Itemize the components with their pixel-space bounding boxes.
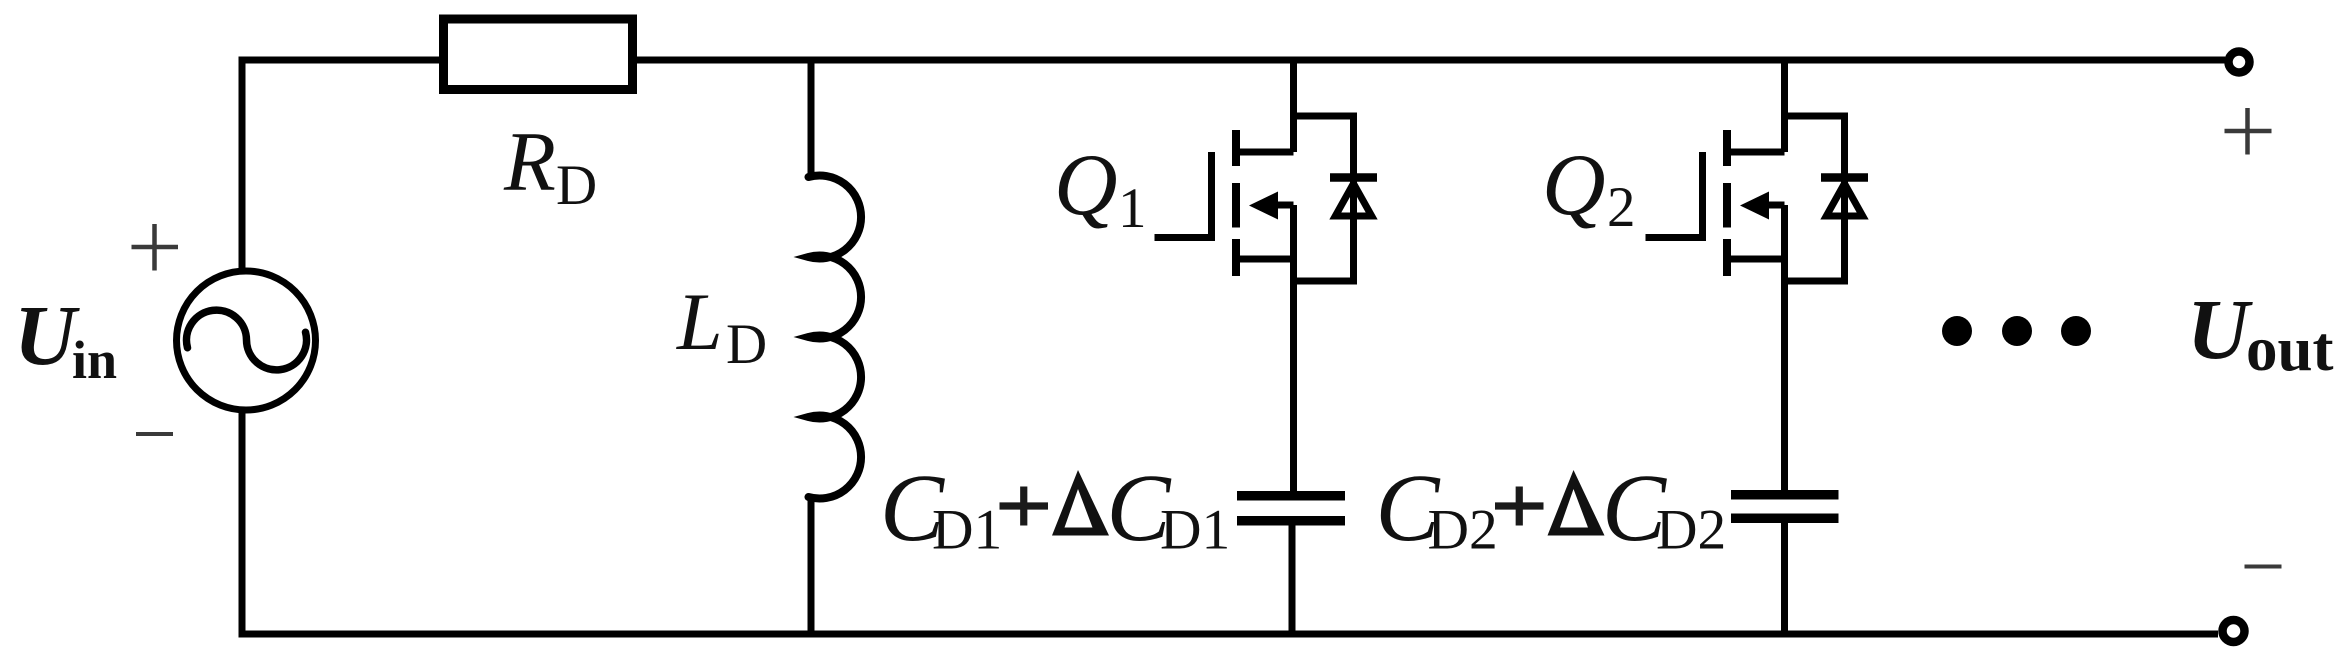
label U_in plus sign bbox=[132, 224, 179, 271]
wire inductor top bbox=[808, 60, 815, 177]
svg-text:in: in bbox=[72, 330, 117, 390]
svg-text:D: D bbox=[726, 313, 767, 376]
body diode of Q1 cathode bar bbox=[1330, 173, 1377, 182]
label C_D2+deltaC_D2 bbox=[1376, 454, 1727, 562]
svg-text:D2: D2 bbox=[1656, 499, 1726, 562]
inductor L_D coil bbox=[809, 176, 862, 499]
Q2 gate lead bbox=[1646, 152, 1703, 238]
svg-text:L: L bbox=[676, 276, 723, 367]
svg-text:out: out bbox=[2246, 314, 2334, 384]
Q1 gate lead bbox=[1155, 152, 1212, 238]
body diode of Q2 vertical lead bbox=[1841, 113, 1848, 285]
Q2 source lead bbox=[1728, 256, 1785, 263]
svg-text:Q: Q bbox=[1054, 137, 1118, 234]
output terminal top bbox=[2229, 52, 2250, 73]
body diode of Q1 vertical lead bbox=[1350, 113, 1357, 285]
ellipsis dot 2 bbox=[2002, 316, 2032, 346]
capacitor C_D1 top plate bbox=[1237, 491, 1345, 501]
body diode of Q1 triangle bbox=[1335, 184, 1371, 217]
Q1 drain lead bbox=[1237, 149, 1294, 156]
Q2 drain lead bbox=[1728, 149, 1785, 156]
Q1 source down vertical bbox=[1290, 281, 1297, 492]
svg-text:1: 1 bbox=[1118, 177, 1147, 240]
svg-text:D1: D1 bbox=[1160, 499, 1230, 562]
wire inductor bottom bbox=[808, 497, 815, 634]
svg-text:D1: D1 bbox=[932, 499, 1002, 562]
body diode of Q2 triangle bbox=[1826, 184, 1862, 217]
wire input vertical lower bbox=[239, 410, 246, 638]
wire capacitor C_D2 bottom bbox=[1781, 522, 1788, 634]
AC source sine wave bbox=[187, 310, 307, 370]
svg-text:D2: D2 bbox=[1428, 499, 1498, 562]
capacitor C_D2 bottom plate bbox=[1731, 514, 1839, 524]
Q2 body arrow head bbox=[1740, 192, 1769, 220]
transistor Q2 bbox=[1646, 57, 1869, 493]
Q2 source down vertical bbox=[1781, 281, 1788, 492]
Q1 body-source vertical bbox=[1290, 205, 1297, 281]
svg-text:U: U bbox=[14, 287, 80, 383]
svg-text:U: U bbox=[2187, 281, 2253, 377]
svg-text:2: 2 bbox=[1607, 176, 1636, 239]
capacitor C_D1 bottom plate bbox=[1237, 516, 1345, 526]
Q1 body arrow head bbox=[1249, 192, 1278, 220]
output terminal bottom bbox=[2223, 620, 2245, 642]
wire top rail bbox=[242, 57, 2225, 64]
svg-text:Q: Q bbox=[1542, 137, 1606, 234]
svg-text:D: D bbox=[556, 154, 597, 217]
body diode of Q2 cathode bar bbox=[1821, 173, 1868, 182]
Q1 body arrow lead bbox=[1274, 202, 1294, 209]
label U_out minus sign bbox=[2245, 565, 2282, 569]
Q2 channel dashes bbox=[1723, 130, 1731, 276]
Q1 channel dashes bbox=[1232, 130, 1240, 276]
Q2 diode bottom branch bbox=[1785, 278, 1845, 285]
ellipsis dot 3 bbox=[2061, 316, 2091, 346]
ellipsis dot 1 bbox=[1942, 316, 1972, 346]
svg-text:R: R bbox=[503, 115, 556, 209]
Q2 body-source vertical bbox=[1781, 205, 1788, 281]
label C_D1+deltaC_D1 bbox=[880, 454, 1230, 562]
wire input vertical upper bbox=[239, 57, 246, 272]
wire capacitor C_D1 bottom bbox=[1289, 525, 1296, 634]
transistor Q1 bbox=[1155, 57, 1378, 493]
Q1 diode bottom branch bbox=[1294, 278, 1354, 285]
Q1 source lead bbox=[1237, 256, 1294, 263]
Q1 drain vertical bbox=[1290, 57, 1297, 153]
Q2 drain vertical bbox=[1781, 57, 1788, 153]
resistor R_D bbox=[444, 19, 633, 90]
capacitor C_D2 top plate bbox=[1731, 490, 1839, 500]
Q1 diode top branch bbox=[1294, 113, 1354, 120]
Q2 body arrow lead bbox=[1765, 202, 1785, 209]
AC source U_in circle bbox=[177, 271, 316, 410]
wire bottom rail bbox=[242, 631, 2218, 638]
label U_in minus sign bbox=[136, 432, 173, 436]
Q2 diode top branch bbox=[1785, 113, 1845, 120]
label U_out plus sign bbox=[2225, 108, 2272, 155]
